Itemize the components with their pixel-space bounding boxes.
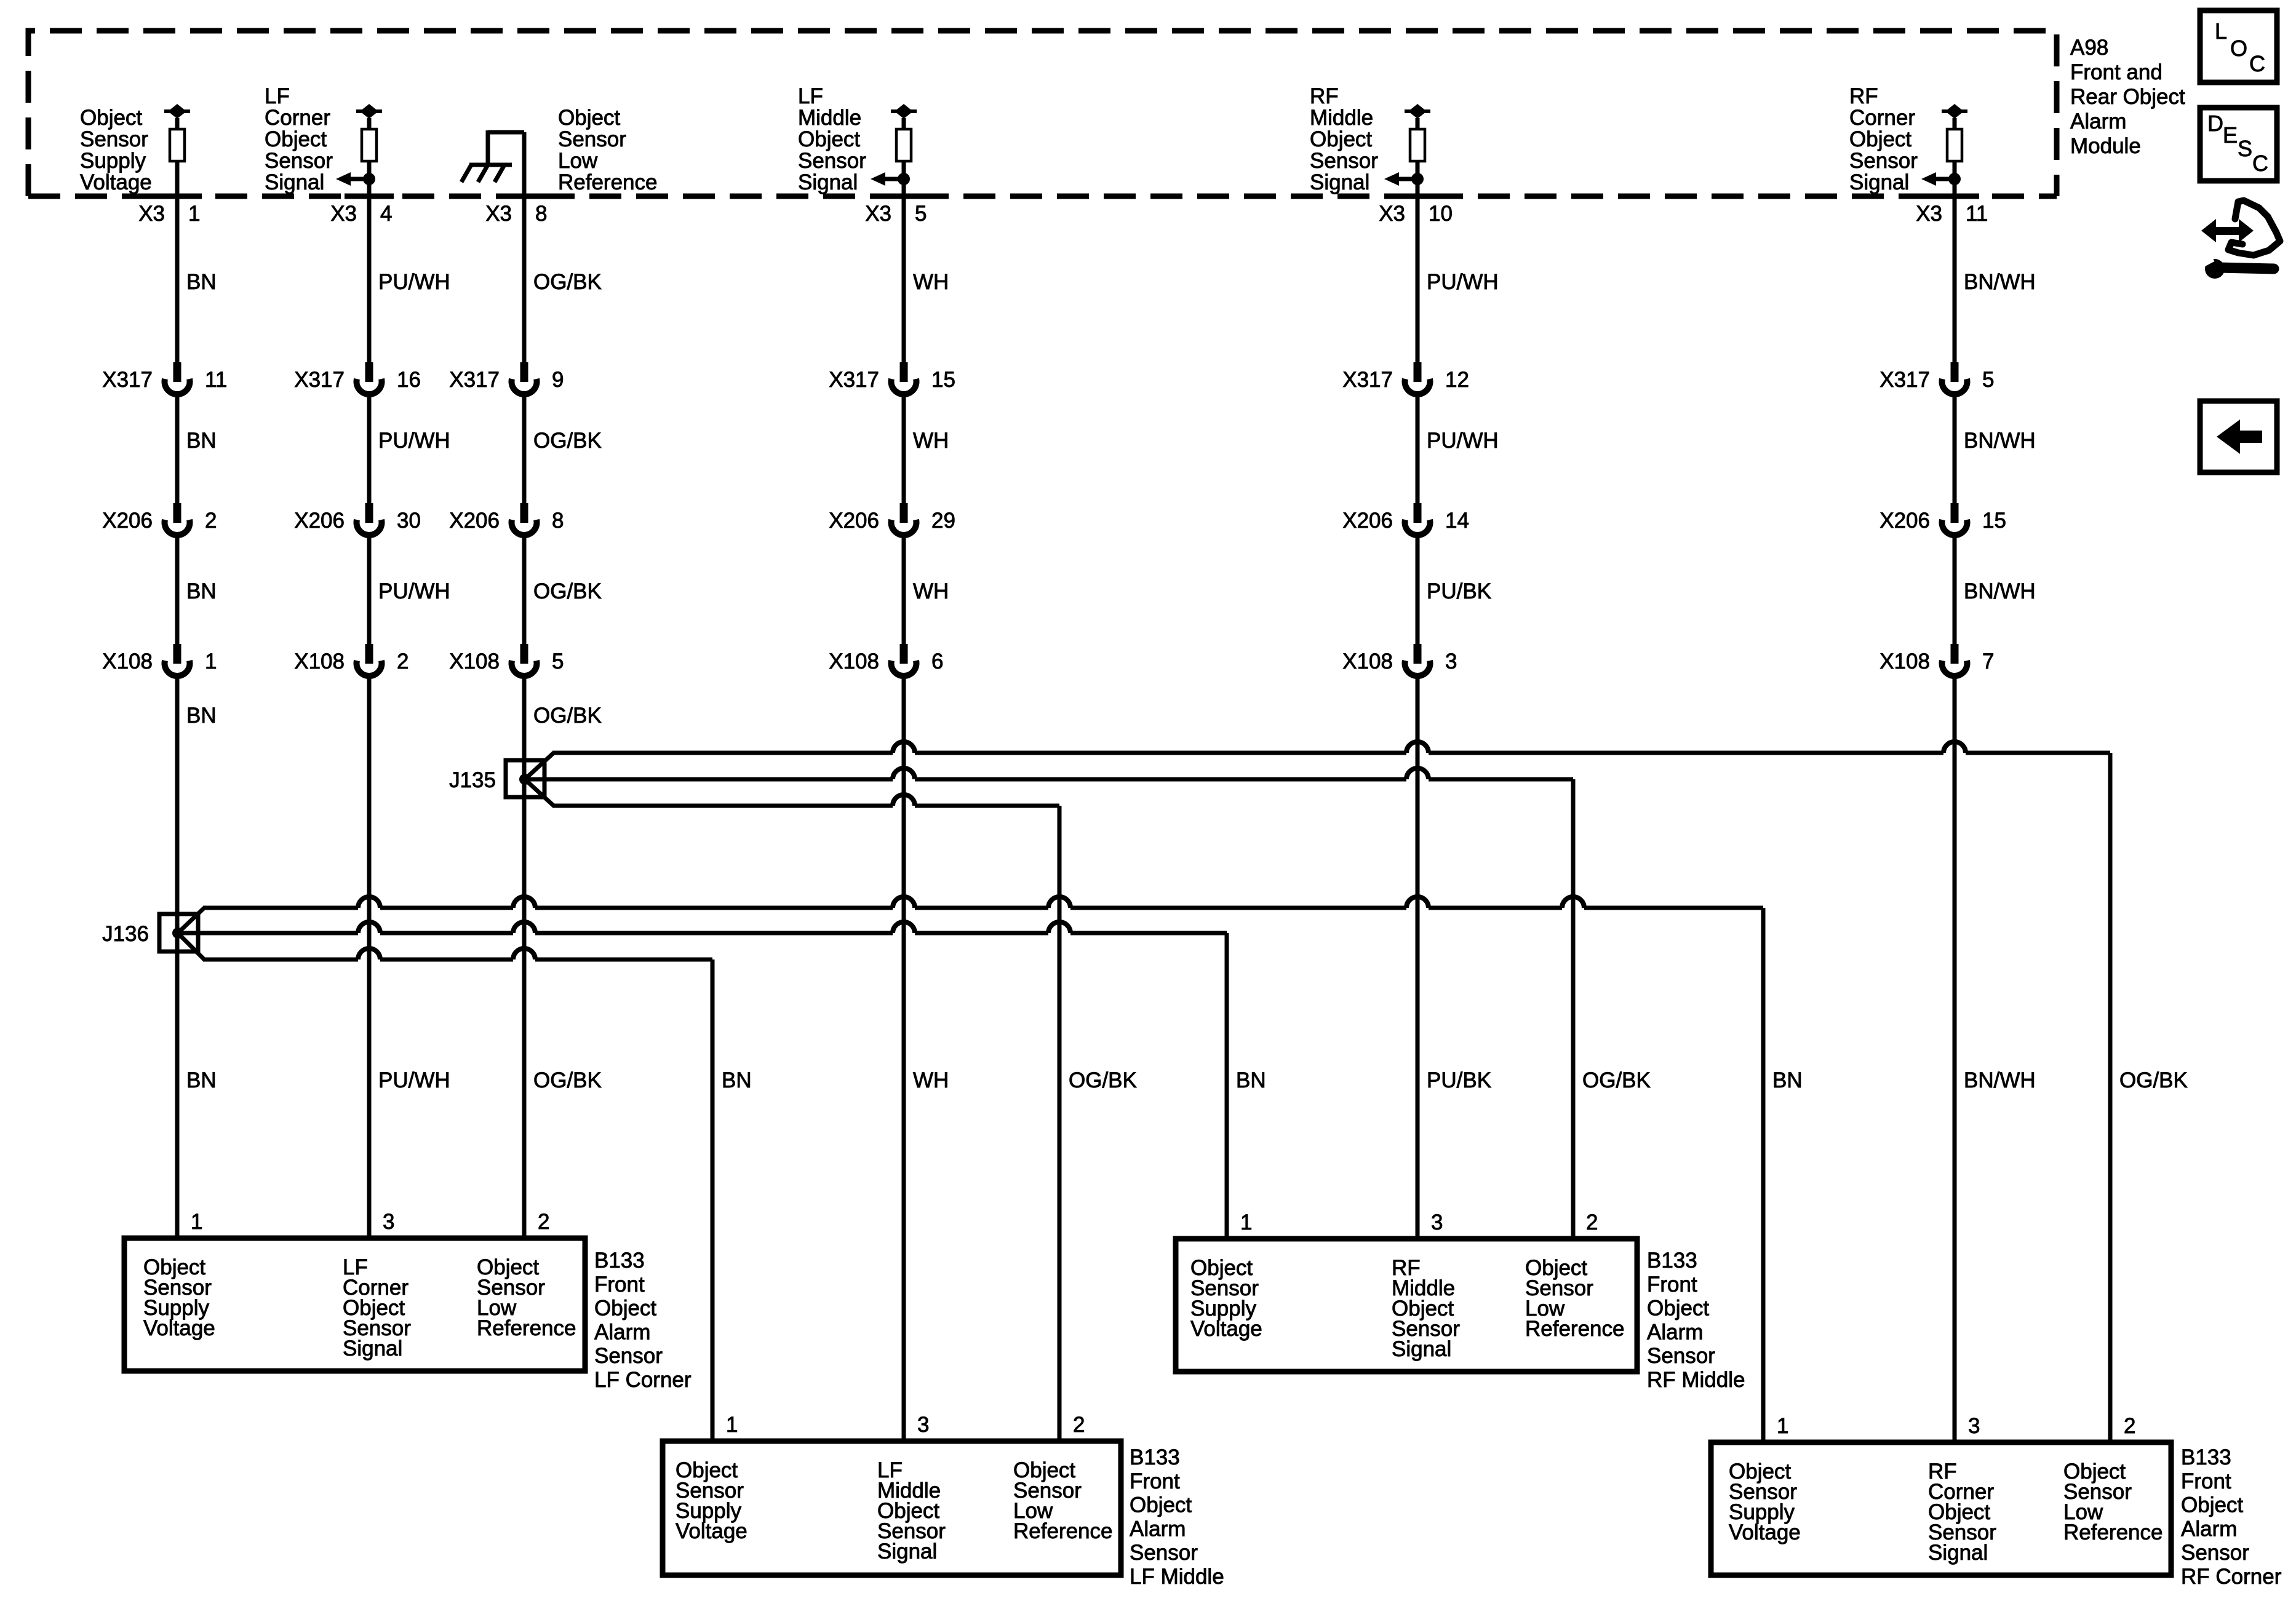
svg-text:Object: Object — [80, 106, 142, 130]
svg-text:B133: B133 — [2181, 1445, 2231, 1469]
svg-text:Sensor: Sensor — [1130, 1541, 1198, 1565]
svg-text:C: C — [2252, 151, 2268, 176]
svg-text:3: 3 — [1968, 1414, 1980, 1438]
svg-text:Low: Low — [558, 149, 598, 173]
svg-text:BN: BN — [186, 704, 217, 728]
svg-text:RF: RF — [1310, 84, 1339, 108]
svg-text:12: 12 — [1445, 368, 1469, 392]
svg-text:B133: B133 — [1130, 1445, 1180, 1469]
svg-text:J135: J135 — [449, 768, 496, 792]
svg-text:2: 2 — [1073, 1413, 1085, 1437]
svg-text:Voltage: Voltage — [143, 1316, 215, 1340]
svg-text:PU/WH: PU/WH — [1427, 270, 1499, 294]
svg-text:Signal: Signal — [1928, 1541, 1988, 1565]
svg-text:S: S — [2238, 136, 2252, 161]
svg-text:3: 3 — [383, 1210, 394, 1234]
svg-text:Front: Front — [1647, 1273, 1697, 1297]
svg-text:Signal: Signal — [1849, 170, 1909, 194]
svg-text:LF Middle: LF Middle — [1130, 1565, 1224, 1589]
svg-text:X317: X317 — [102, 368, 153, 392]
svg-text:14: 14 — [1445, 509, 1469, 533]
svg-text:5: 5 — [552, 650, 564, 673]
svg-text:Signal: Signal — [798, 170, 858, 194]
svg-text:1: 1 — [205, 650, 217, 673]
svg-text:5: 5 — [915, 202, 927, 226]
svg-text:RF Corner: RF Corner — [2181, 1565, 2282, 1589]
svg-text:Alarm: Alarm — [594, 1320, 650, 1344]
svg-text:BN: BN — [1236, 1068, 1266, 1092]
svg-text:Front: Front — [1130, 1469, 1180, 1493]
svg-text:PU/WH: PU/WH — [378, 429, 450, 453]
svg-text:X3: X3 — [138, 202, 165, 226]
svg-text:J136: J136 — [102, 922, 149, 946]
svg-text:Sensor: Sensor — [80, 127, 148, 151]
svg-text:Sensor: Sensor — [265, 149, 333, 173]
svg-text:Sensor: Sensor — [2181, 1541, 2249, 1565]
svg-text:OG/BK: OG/BK — [533, 270, 602, 294]
svg-text:Signal: Signal — [1310, 170, 1369, 194]
svg-text:PU/WH: PU/WH — [378, 579, 450, 603]
svg-text:B133: B133 — [1647, 1249, 1697, 1273]
svg-text:BN/WH: BN/WH — [1964, 579, 2036, 603]
svg-text:Voltage: Voltage — [676, 1519, 747, 1543]
svg-text:Alarm: Alarm — [1647, 1320, 1703, 1344]
svg-text:B133: B133 — [594, 1249, 645, 1273]
svg-text:OG/BK: OG/BK — [533, 1068, 602, 1092]
svg-text:WH: WH — [913, 579, 949, 603]
svg-text:Object: Object — [2181, 1493, 2243, 1517]
svg-text:PU/WH: PU/WH — [1427, 429, 1499, 453]
svg-text:1: 1 — [726, 1413, 738, 1437]
svg-text:Sensor: Sensor — [594, 1344, 663, 1368]
svg-text:15: 15 — [931, 368, 955, 392]
svg-text:BN: BN — [1772, 1068, 1803, 1092]
svg-text:X108: X108 — [1342, 650, 1393, 673]
svg-text:Voltage: Voltage — [80, 170, 152, 194]
svg-text:3: 3 — [917, 1413, 929, 1437]
svg-text:Front and: Front and — [2070, 60, 2162, 84]
svg-text:Object: Object — [798, 127, 860, 151]
svg-text:OG/BK: OG/BK — [533, 579, 602, 603]
svg-text:OG/BK: OG/BK — [2119, 1068, 2188, 1092]
svg-text:BN/WH: BN/WH — [1964, 1068, 2036, 1092]
svg-text:WH: WH — [913, 1068, 949, 1092]
svg-text:WH: WH — [913, 270, 949, 294]
svg-text:Sensor: Sensor — [798, 149, 866, 173]
svg-text:1: 1 — [191, 1210, 202, 1234]
svg-text:PU/WH: PU/WH — [378, 1068, 450, 1092]
svg-text:Alarm: Alarm — [1130, 1517, 1186, 1541]
svg-text:Reference: Reference — [477, 1316, 576, 1340]
svg-text:WH: WH — [913, 429, 949, 453]
svg-text:Signal: Signal — [265, 170, 324, 194]
svg-text:Front: Front — [594, 1273, 645, 1297]
svg-text:X206: X206 — [829, 509, 879, 533]
svg-text:X206: X206 — [294, 509, 345, 533]
svg-text:X317: X317 — [829, 368, 879, 392]
svg-text:30: 30 — [397, 509, 421, 533]
svg-text:LF Corner: LF Corner — [594, 1368, 692, 1392]
svg-text:X206: X206 — [1342, 509, 1393, 533]
svg-text:E: E — [2223, 122, 2238, 148]
svg-text:RF Middle: RF Middle — [1647, 1368, 1745, 1392]
svg-text:X317: X317 — [1342, 368, 1393, 392]
svg-text:Object: Object — [594, 1297, 656, 1321]
svg-text:BN: BN — [186, 579, 217, 603]
svg-text:OG/BK: OG/BK — [1582, 1068, 1651, 1092]
svg-text:Object: Object — [558, 106, 620, 130]
svg-text:6: 6 — [931, 650, 943, 673]
svg-text:1: 1 — [1240, 1210, 1252, 1234]
svg-text:Reference: Reference — [1525, 1317, 1624, 1341]
svg-text:X3: X3 — [485, 202, 512, 226]
svg-text:Object: Object — [1647, 1297, 1709, 1321]
svg-text:X108: X108 — [829, 650, 879, 673]
svg-text:11: 11 — [205, 368, 227, 392]
svg-text:3: 3 — [1431, 1210, 1443, 1234]
svg-text:PU/BK: PU/BK — [1427, 1068, 1491, 1092]
svg-text:5: 5 — [1982, 368, 1994, 392]
svg-text:D: D — [2207, 111, 2223, 136]
svg-text:16: 16 — [397, 368, 421, 392]
svg-text:BN: BN — [186, 429, 217, 453]
svg-text:Voltage: Voltage — [1190, 1317, 1262, 1341]
svg-text:X108: X108 — [102, 650, 153, 673]
svg-text:L: L — [2215, 18, 2227, 44]
svg-text:RF: RF — [1849, 84, 1878, 108]
svg-text:Sensor: Sensor — [558, 127, 626, 151]
svg-text:O: O — [2230, 36, 2247, 61]
svg-text:Object: Object — [265, 127, 327, 151]
svg-text:Object: Object — [1849, 127, 1911, 151]
svg-text:PU/BK: PU/BK — [1427, 579, 1491, 603]
svg-text:Signal: Signal — [877, 1540, 937, 1563]
svg-text:2: 2 — [2124, 1414, 2135, 1438]
svg-text:3: 3 — [1445, 650, 1457, 673]
svg-text:OG/BK: OG/BK — [533, 429, 602, 453]
svg-text:A98: A98 — [2070, 36, 2108, 60]
svg-text:OG/BK: OG/BK — [533, 704, 602, 728]
svg-text:Module: Module — [2070, 134, 2141, 158]
svg-text:Reference: Reference — [2063, 1520, 2162, 1544]
svg-text:7: 7 — [1982, 650, 1994, 673]
svg-text:X108: X108 — [449, 650, 500, 673]
svg-text:10: 10 — [1429, 202, 1453, 226]
svg-text:BN: BN — [186, 1068, 217, 1092]
svg-text:BN: BN — [186, 270, 217, 294]
svg-text:BN/WH: BN/WH — [1964, 429, 2036, 453]
svg-text:Sensor: Sensor — [1647, 1344, 1715, 1368]
svg-text:BN: BN — [722, 1068, 752, 1092]
svg-text:1: 1 — [188, 202, 200, 226]
svg-text:X206: X206 — [449, 509, 500, 533]
svg-text:X3: X3 — [1916, 202, 1942, 226]
svg-text:LF: LF — [265, 84, 290, 108]
svg-text:Signal: Signal — [1392, 1337, 1451, 1361]
svg-text:Rear Object: Rear Object — [2070, 85, 2185, 109]
svg-text:Alarm: Alarm — [2181, 1517, 2237, 1541]
svg-text:X3: X3 — [1379, 202, 1405, 226]
svg-text:8: 8 — [552, 509, 564, 533]
svg-text:Reference: Reference — [1013, 1519, 1112, 1543]
svg-text:OG/BK: OG/BK — [1069, 1068, 1137, 1092]
svg-text:X206: X206 — [1879, 509, 1930, 533]
svg-text:2: 2 — [1586, 1210, 1598, 1234]
svg-text:Front: Front — [2181, 1469, 2231, 1493]
svg-text:X317: X317 — [1879, 368, 1930, 392]
svg-text:Middle: Middle — [1310, 106, 1373, 130]
svg-text:Corner: Corner — [1849, 106, 1915, 130]
svg-text:Sensor: Sensor — [1310, 149, 1378, 173]
svg-text:11: 11 — [1966, 202, 1988, 226]
svg-text:29: 29 — [931, 509, 955, 533]
svg-text:X108: X108 — [294, 650, 345, 673]
svg-text:Alarm: Alarm — [2070, 109, 2126, 133]
svg-text:Supply: Supply — [80, 149, 146, 173]
svg-text:8: 8 — [535, 202, 547, 226]
svg-text:1: 1 — [1777, 1414, 1788, 1438]
svg-text:Sensor: Sensor — [1849, 149, 1918, 173]
svg-text:Object: Object — [1310, 127, 1372, 151]
svg-text:Corner: Corner — [265, 106, 330, 130]
svg-text:Signal: Signal — [343, 1337, 402, 1361]
svg-text:15: 15 — [1982, 509, 2006, 533]
svg-text:2: 2 — [205, 509, 217, 533]
svg-text:4: 4 — [380, 202, 392, 226]
svg-text:X317: X317 — [294, 368, 345, 392]
svg-text:Voltage: Voltage — [1729, 1520, 1801, 1544]
svg-text:PU/WH: PU/WH — [378, 270, 450, 294]
svg-text:C: C — [2249, 51, 2265, 76]
svg-text:X3: X3 — [865, 202, 891, 226]
svg-text:X317: X317 — [449, 368, 500, 392]
svg-text:2: 2 — [397, 650, 409, 673]
svg-text:Object: Object — [1130, 1493, 1192, 1517]
svg-text:2: 2 — [538, 1210, 549, 1234]
svg-text:Middle: Middle — [798, 106, 861, 130]
svg-text:9: 9 — [552, 368, 564, 392]
svg-text:X206: X206 — [102, 509, 153, 533]
svg-text:X3: X3 — [330, 202, 357, 226]
svg-text:Reference: Reference — [558, 170, 657, 194]
svg-text:LF: LF — [798, 84, 823, 108]
svg-text:X108: X108 — [1879, 650, 1930, 673]
svg-text:BN/WH: BN/WH — [1964, 270, 2036, 294]
